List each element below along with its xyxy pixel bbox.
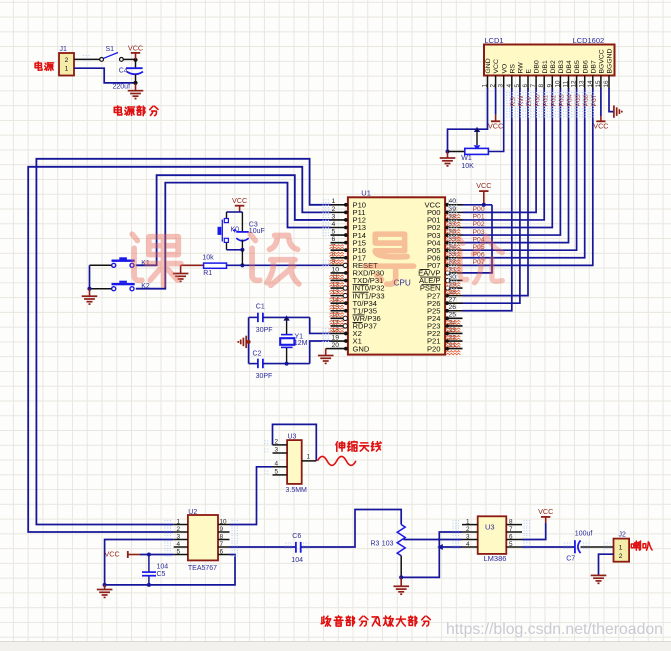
lm386 pins bbox=[462, 518, 522, 547]
wire bbox=[227, 264, 331, 266]
svg-text:7: 7 bbox=[530, 84, 537, 88]
wire bbox=[476, 129, 478, 145]
svg-text:P03: P03 bbox=[559, 94, 566, 106]
svg-text:100uf: 100uf bbox=[575, 530, 593, 537]
svg-text:220uf: 220uf bbox=[113, 84, 131, 91]
wire net P05 bbox=[463, 88, 577, 250]
svg-text:P06: P06 bbox=[583, 94, 590, 106]
svg-text:4: 4 bbox=[275, 461, 279, 468]
wire net P07 bbox=[463, 88, 593, 265]
label cpu left pin names bbox=[353, 201, 385, 354]
wire bbox=[488, 88, 503, 152]
erc squiggles left bbox=[330, 245, 344, 332]
power VCC inv bbox=[488, 115, 503, 131]
svg-text:8: 8 bbox=[509, 518, 513, 525]
power VCC bbox=[128, 43, 143, 59]
svg-text:104: 104 bbox=[291, 557, 303, 564]
net label P06 bbox=[473, 251, 485, 258]
svg-text:U2: U2 bbox=[188, 509, 197, 516]
ground bbox=[97, 585, 113, 597]
wire bbox=[140, 554, 174, 556]
ground bbox=[238, 336, 246, 348]
wire bbox=[609, 88, 614, 112]
svg-text:2: 2 bbox=[177, 526, 181, 533]
svg-text:16: 16 bbox=[603, 80, 610, 88]
svg-text:10: 10 bbox=[220, 518, 228, 525]
svg-text:7: 7 bbox=[509, 526, 513, 533]
svg-text:S1: S1 bbox=[106, 46, 115, 53]
svg-text:2: 2 bbox=[619, 553, 623, 560]
crystal Y1 bbox=[280, 317, 307, 363]
svg-text:10: 10 bbox=[332, 266, 340, 273]
svg-text:W1: W1 bbox=[461, 155, 472, 162]
label 电源 bbox=[35, 62, 53, 71]
capacitor C7 bbox=[566, 530, 592, 562]
svg-text:5: 5 bbox=[177, 548, 181, 555]
svg-text:5: 5 bbox=[275, 469, 279, 476]
wire net P03 bbox=[463, 88, 561, 235]
wire u2pin3-gnd-loop bbox=[105, 540, 235, 585]
connector U3 jack bbox=[286, 434, 308, 494]
svg-text:27: 27 bbox=[449, 297, 457, 304]
wire net U2.1-P10 bbox=[36, 159, 330, 525]
svg-text:DB5: DB5 bbox=[574, 60, 581, 73]
node u2-gnd bbox=[103, 583, 107, 587]
svg-text:U1: U1 bbox=[361, 188, 371, 197]
svg-text:BGGND: BGGND bbox=[607, 48, 614, 73]
wire bbox=[448, 151, 465, 153]
node c4-gnd bbox=[133, 81, 137, 85]
label 喇叭 bbox=[631, 541, 652, 550]
net label P07 bbox=[473, 259, 485, 266]
svg-text:C4: C4 bbox=[119, 67, 128, 74]
power VCC bbox=[232, 196, 247, 212]
capacitor C2 bbox=[253, 350, 273, 380]
svg-text:VCC: VCC bbox=[232, 196, 247, 205]
svg-text:VCC: VCC bbox=[488, 122, 503, 131]
wire r3-lm386pin2 bbox=[401, 532, 462, 577]
potentiometer W1 bbox=[461, 145, 488, 170]
resistor R3 bbox=[371, 525, 406, 556]
svg-text:3: 3 bbox=[177, 533, 181, 540]
node y1-c2 bbox=[285, 362, 289, 366]
svg-text:30PF: 30PF bbox=[256, 373, 273, 380]
ground bbox=[614, 105, 622, 117]
wire bbox=[310, 317, 331, 333]
svg-text:104: 104 bbox=[157, 564, 169, 571]
power VCC bbox=[538, 507, 553, 523]
svg-text:3: 3 bbox=[332, 213, 336, 220]
svg-text:4: 4 bbox=[332, 221, 336, 228]
svg-text:12: 12 bbox=[571, 80, 578, 88]
wire net P06 bbox=[463, 88, 585, 258]
svg-text:U3: U3 bbox=[485, 523, 495, 532]
wire bbox=[74, 58, 100, 60]
label cpu left pin numbers bbox=[332, 198, 340, 349]
svg-text:E: E bbox=[526, 69, 533, 74]
svg-text:13: 13 bbox=[579, 80, 586, 88]
lcd module LCD1 bbox=[484, 36, 615, 75]
wire bbox=[227, 211, 243, 213]
wire cpu left pin stubs bbox=[331, 203, 348, 351]
wire bbox=[599, 554, 614, 575]
svg-text:P07: P07 bbox=[591, 94, 598, 106]
svg-text:C5: C5 bbox=[157, 571, 166, 578]
wire net P04 bbox=[463, 88, 569, 243]
node r3-bot bbox=[399, 575, 403, 579]
svg-text:1: 1 bbox=[307, 453, 311, 460]
svg-text:VCC: VCC bbox=[538, 507, 553, 516]
power VCC inv bbox=[593, 116, 608, 131]
svg-text:6: 6 bbox=[332, 236, 336, 243]
node k2-gnd bbox=[87, 287, 91, 291]
svg-text:DB0: DB0 bbox=[534, 60, 541, 73]
switch K2 bbox=[112, 281, 150, 291]
net label P05 bbox=[473, 244, 485, 251]
wire net P26-RW bbox=[463, 88, 520, 303]
wire bbox=[273, 424, 317, 461]
node c1c2-gnd bbox=[247, 340, 251, 344]
wire bbox=[263, 316, 310, 318]
svg-text:DB1: DB1 bbox=[542, 60, 549, 73]
svg-text:3: 3 bbox=[466, 533, 470, 540]
svg-text:8: 8 bbox=[220, 533, 224, 540]
node power-vcc bbox=[133, 58, 137, 62]
svg-text:P05: P05 bbox=[575, 94, 582, 106]
svg-text:C2: C2 bbox=[253, 350, 262, 357]
wire net K1-P12 bbox=[136, 175, 331, 265]
wire bbox=[181, 264, 204, 266]
wire cpu right pin stubs bbox=[445, 203, 462, 351]
svg-text:VCC: VCC bbox=[105, 550, 120, 559]
wire bbox=[90, 264, 112, 266]
svg-text:19: 19 bbox=[332, 334, 340, 341]
svg-text:VCC: VCC bbox=[476, 181, 491, 190]
svg-text:DB3: DB3 bbox=[558, 60, 565, 73]
svg-text:LM386: LM386 bbox=[484, 554, 507, 563]
wire bbox=[463, 204, 493, 206]
wire bbox=[310, 341, 331, 364]
svg-text:P20: P20 bbox=[427, 344, 441, 353]
svg-text:U3: U3 bbox=[288, 434, 297, 441]
wire bbox=[600, 88, 602, 116]
svg-text:5: 5 bbox=[514, 84, 521, 88]
node vcc-ea bbox=[482, 203, 486, 207]
wire bbox=[581, 546, 614, 548]
label CPU bbox=[394, 279, 411, 288]
wire net P01 bbox=[463, 88, 545, 220]
wire bbox=[326, 349, 331, 356]
capacitor C1 bbox=[256, 304, 273, 334]
capacitor C4 bbox=[119, 67, 143, 74]
svg-text:VCC: VCC bbox=[593, 122, 608, 131]
net label P01 bbox=[473, 214, 485, 221]
svg-text:DB7: DB7 bbox=[590, 60, 597, 73]
svg-text:C7: C7 bbox=[566, 555, 575, 562]
ic U2 TEA5767 bbox=[188, 509, 218, 572]
wire bbox=[74, 68, 136, 83]
ground bbox=[591, 575, 607, 583]
wire lm386pin6-vcc bbox=[522, 523, 546, 540]
wire net EA-VCC bbox=[463, 205, 493, 273]
wire r3tap-lm386pin3 bbox=[404, 539, 463, 541]
capacitor C5 bbox=[142, 555, 168, 585]
label 收音部分及放大部分 bbox=[321, 616, 430, 626]
label 电源部分 bbox=[114, 106, 158, 116]
svg-text:9: 9 bbox=[546, 84, 553, 88]
label cpu right pin numbers bbox=[449, 198, 457, 349]
wire bbox=[227, 249, 243, 251]
svg-text:2: 2 bbox=[332, 206, 336, 213]
wire bbox=[248, 317, 250, 363]
svg-text:DB6: DB6 bbox=[582, 60, 589, 73]
svg-text:30: 30 bbox=[449, 274, 457, 281]
wire bbox=[249, 316, 258, 318]
net label P00 bbox=[473, 206, 485, 213]
svg-text:RW: RW bbox=[518, 62, 525, 74]
wire bbox=[123, 58, 135, 60]
lcd pins and names bbox=[482, 48, 614, 88]
watermark text bbox=[132, 234, 502, 285]
svg-text:BGVCC: BGVCC bbox=[599, 49, 606, 73]
svg-text:P01: P01 bbox=[542, 94, 549, 106]
svg-text:K2: K2 bbox=[141, 283, 150, 290]
svg-text:LCD1: LCD1 bbox=[484, 36, 503, 45]
net label P03 bbox=[473, 229, 485, 236]
svg-text:10: 10 bbox=[554, 80, 561, 88]
svg-text:3: 3 bbox=[275, 447, 279, 454]
wire bbox=[90, 288, 112, 290]
svg-text:103: 103 bbox=[382, 540, 394, 547]
wire net P25-RS bbox=[463, 88, 512, 311]
svg-text:DB2: DB2 bbox=[550, 60, 557, 73]
hotspot dots 2 bbox=[83, 55, 611, 557]
node k0-c3 bbox=[240, 248, 244, 252]
svg-text:6: 6 bbox=[509, 533, 513, 540]
svg-text:J2: J2 bbox=[619, 532, 627, 539]
svg-text:1: 1 bbox=[619, 544, 623, 551]
watermark url bbox=[446, 621, 663, 638]
svg-text:1: 1 bbox=[65, 66, 69, 73]
connector J1 bbox=[59, 46, 74, 75]
wire net U2.2-P11 bbox=[28, 167, 330, 532]
svg-text:P00: P00 bbox=[473, 206, 485, 213]
wire c6-r3 bbox=[301, 510, 402, 548]
svg-text:9: 9 bbox=[220, 526, 224, 533]
svg-text:1: 1 bbox=[466, 518, 470, 525]
svg-text:GND: GND bbox=[485, 58, 492, 73]
svg-text:5: 5 bbox=[509, 541, 513, 548]
ground bbox=[440, 152, 456, 166]
svg-text:10k: 10k bbox=[202, 254, 214, 261]
svg-text:P02: P02 bbox=[551, 94, 558, 106]
capacitor C3 bbox=[233, 212, 265, 250]
label 220uf bbox=[113, 84, 131, 91]
svg-text:1: 1 bbox=[332, 198, 336, 205]
svg-text:14: 14 bbox=[587, 80, 594, 88]
svg-text:C1: C1 bbox=[256, 304, 265, 311]
wire u3pin4-u2pin10 bbox=[230, 467, 273, 525]
svg-text:4: 4 bbox=[177, 541, 181, 548]
wire bbox=[263, 363, 310, 365]
svg-text:VCC: VCC bbox=[493, 59, 500, 73]
svg-text:20: 20 bbox=[332, 342, 340, 349]
power VCC side bbox=[105, 550, 141, 559]
svg-text:39: 39 bbox=[449, 206, 457, 213]
svg-text:7: 7 bbox=[220, 541, 224, 548]
wire lm386pin4 bbox=[437, 544, 462, 550]
svg-text:P04: P04 bbox=[567, 94, 574, 106]
svg-text:2: 2 bbox=[490, 84, 497, 88]
node pot-left bbox=[446, 150, 450, 154]
switch K0 bbox=[218, 219, 240, 243]
wire bbox=[246, 341, 248, 343]
svg-text:R1: R1 bbox=[203, 270, 212, 277]
label cpu right pin names bbox=[418, 201, 441, 354]
ic U3 LM386 bbox=[478, 516, 507, 563]
node wiper-junction bbox=[474, 127, 480, 132]
svg-text:2: 2 bbox=[65, 57, 69, 64]
svg-text:1: 1 bbox=[177, 518, 181, 525]
svg-text:P01: P01 bbox=[473, 214, 485, 221]
label 伸缩天线 bbox=[336, 441, 381, 451]
node reset-junction bbox=[240, 263, 244, 267]
node c5-bot bbox=[147, 583, 151, 587]
wire bbox=[135, 60, 137, 68]
svg-text:4: 4 bbox=[506, 84, 513, 88]
svg-text:EN: EN bbox=[526, 97, 533, 107]
capacitor C6 bbox=[291, 533, 303, 564]
wire bbox=[89, 265, 91, 288]
svg-text:P03: P03 bbox=[473, 229, 485, 236]
wire net K2-P13 bbox=[136, 183, 331, 289]
svg-text:26: 26 bbox=[449, 304, 457, 311]
antenna squiggle bbox=[318, 456, 356, 465]
net label P04 bbox=[473, 236, 485, 243]
wire bbox=[241, 250, 243, 265]
svg-text:https://blog.csdn.net/theroado: https://blog.csdn.net/theroadon bbox=[446, 621, 663, 638]
ground bbox=[393, 577, 409, 594]
wire bbox=[226, 242, 228, 249]
wire net P27-EN bbox=[463, 88, 529, 296]
hotspot dots bbox=[323, 92, 594, 342]
svg-text:P00: P00 bbox=[534, 94, 541, 106]
wire bbox=[249, 363, 258, 365]
svg-text:11: 11 bbox=[563, 80, 570, 87]
svg-text:40: 40 bbox=[449, 198, 457, 205]
switch K1 bbox=[112, 257, 150, 267]
net label P02 bbox=[473, 221, 485, 228]
node c1-y1 bbox=[283, 315, 289, 320]
svg-text:GND: GND bbox=[353, 344, 370, 353]
svg-text:6: 6 bbox=[220, 548, 224, 555]
svg-text:10K: 10K bbox=[461, 163, 474, 170]
svg-text:25: 25 bbox=[449, 312, 457, 319]
svg-text:VO: VO bbox=[501, 64, 508, 74]
switch S1 bbox=[100, 46, 124, 61]
svg-text:LCD1602: LCD1602 bbox=[573, 36, 605, 45]
wire net P02 bbox=[463, 88, 553, 228]
wire lm386pin5-c7 bbox=[522, 546, 575, 548]
svg-text:30PF: 30PF bbox=[256, 327, 273, 334]
wire bbox=[226, 212, 228, 219]
ground bbox=[128, 84, 144, 99]
svg-text:6: 6 bbox=[522, 84, 529, 88]
svg-text:J1: J1 bbox=[60, 46, 68, 53]
wire net P00 bbox=[463, 88, 537, 212]
svg-text:R3: R3 bbox=[371, 540, 380, 547]
wire u2pin7-c6 bbox=[230, 546, 296, 548]
ground bbox=[82, 289, 98, 304]
svg-text:12M: 12M bbox=[294, 340, 308, 347]
svg-text:3: 3 bbox=[498, 84, 505, 88]
svg-text:5: 5 bbox=[332, 228, 336, 235]
node c5-top bbox=[147, 553, 151, 557]
svg-text:C6: C6 bbox=[292, 533, 301, 540]
wire bbox=[135, 75, 137, 83]
svg-text:P02: P02 bbox=[473, 221, 485, 228]
wire lcd-gnd-pot bbox=[448, 88, 488, 152]
op-amp U1 CPU box bbox=[348, 188, 445, 354]
svg-text:VCC: VCC bbox=[128, 43, 143, 52]
wire bbox=[400, 556, 402, 578]
svg-text:15: 15 bbox=[595, 80, 602, 88]
lcd net labels bbox=[510, 94, 598, 106]
erc squiggles right bbox=[446, 214, 460, 354]
power VCC bbox=[476, 181, 491, 205]
svg-text:RS: RS bbox=[509, 64, 516, 74]
u3 jack pins bbox=[273, 439, 317, 476]
u2 pins bbox=[174, 518, 230, 555]
svg-text:2: 2 bbox=[275, 439, 279, 446]
svg-text:8: 8 bbox=[538, 84, 545, 88]
resistor R1 bbox=[202, 254, 226, 276]
svg-text:DB4: DB4 bbox=[566, 60, 573, 73]
svg-text:3.5MM: 3.5MM bbox=[286, 487, 308, 494]
svg-text:4: 4 bbox=[466, 541, 470, 548]
connector J2 bbox=[614, 532, 630, 562]
svg-text:TEA5767: TEA5767 bbox=[188, 565, 217, 572]
wire bbox=[495, 88, 497, 115]
svg-text:RS: RS bbox=[510, 97, 517, 107]
svg-text:1: 1 bbox=[482, 84, 489, 88]
svg-text:RW: RW bbox=[518, 95, 525, 107]
ground bbox=[173, 265, 189, 281]
svg-text:2: 2 bbox=[466, 526, 470, 533]
ground bbox=[318, 356, 334, 364]
